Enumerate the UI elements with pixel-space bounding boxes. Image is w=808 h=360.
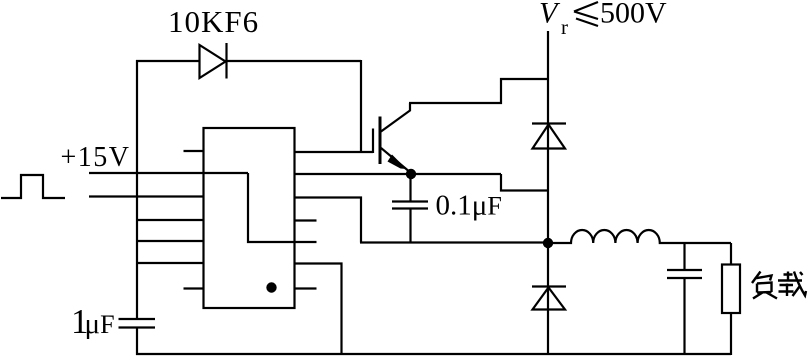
pin stub left 1	[184, 150, 204, 152]
diode D3 lower freewheel	[532, 287, 566, 310]
op-amp U1 driver IC body	[204, 128, 295, 308]
svg-text:1μF: 1μF	[71, 302, 115, 341]
wire top loop horizontal	[136, 60, 361, 62]
junction dot emitter	[406, 169, 416, 179]
pin wire left 5	[137, 240, 204, 242]
IC internal dot	[266, 282, 276, 292]
wire left bus vertical lower	[136, 328, 138, 356]
capacitor C3 1uF	[119, 319, 156, 328]
svg-text:V: V	[539, 0, 561, 30]
resistor load	[722, 243, 740, 355]
pin stub right 4	[295, 219, 317, 221]
less-equal sign	[574, 2, 598, 26]
transistor Q1 collector lead	[381, 103, 410, 132]
wire gate from IC	[295, 151, 374, 153]
wire IC to bottom rail	[295, 264, 342, 355]
label Vr<=500V	[539, 0, 667, 39]
pin stub right 7	[295, 287, 317, 289]
diode D2 upper freewheel	[532, 124, 566, 149]
svg-text:+15V: +15V	[61, 142, 131, 173]
wire left bus vertical upper	[136, 60, 138, 319]
wire snubber rail to junction	[360, 241, 548, 243]
capacitor C1 0.1uF	[392, 174, 428, 243]
pin wire left 6	[137, 262, 204, 264]
IC internal step wire	[248, 173, 317, 242]
transistor Q1 IGBT bar	[379, 117, 382, 165]
wire input to IC	[89, 195, 203, 197]
wire emitter step to main line	[501, 174, 548, 191]
inductor L1	[548, 230, 731, 243]
wire main vertical line	[547, 31, 549, 355]
svg-text:10KF6: 10KF6	[168, 4, 259, 39]
capacitor C2 filter	[667, 243, 702, 355]
svg-text:500V: 500V	[600, 0, 667, 30]
wire IC to snubber rail	[295, 198, 362, 243]
wire bottom rail	[136, 353, 731, 355]
pin stub left 7	[184, 287, 204, 289]
wire collector to main line	[409, 79, 548, 103]
pin wire left 4	[137, 219, 204, 221]
pulse input waveform	[1, 175, 65, 198]
junction dot output node	[543, 238, 553, 248]
label load (Chinese)	[752, 272, 806, 299]
svg-text:r: r	[561, 15, 568, 39]
svg-text:0.1μF: 0.1μF	[436, 190, 502, 222]
wire +15V to IC internal	[89, 172, 248, 174]
wire emitter from IC	[295, 173, 502, 175]
diode D1 10KF6	[200, 43, 227, 79]
transistor Q1 emitter lead with arrow	[381, 148, 411, 173]
transistor Q1 gate bar	[372, 129, 374, 154]
wire gate drop vertical	[360, 60, 362, 152]
